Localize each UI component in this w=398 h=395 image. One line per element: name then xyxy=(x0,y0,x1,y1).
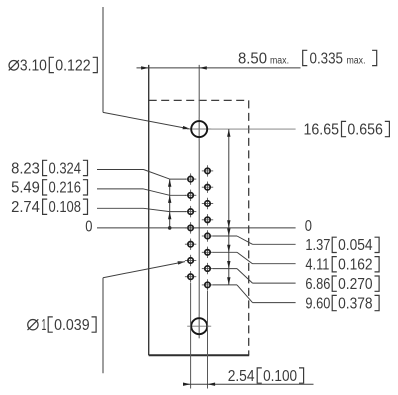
svg-text:1: 1 xyxy=(42,317,47,334)
centerline through holes xyxy=(198,65,200,338)
leader for 1.37 xyxy=(213,235,237,237)
svg-text:3.10: 3.10 xyxy=(20,57,47,74)
svg-text:1.37: 1.37 xyxy=(305,237,330,254)
pin P4 xyxy=(202,214,213,225)
dimension D3 2.54 line xyxy=(183,383,314,385)
dimension chain left vertical xyxy=(169,179,171,228)
svg-text:0: 0 xyxy=(305,218,312,235)
svg-text:6.86: 6.86 xyxy=(305,276,330,293)
dimension D1 8.50 line xyxy=(137,67,301,69)
dimension chain right arrow 9.60 xyxy=(227,277,230,285)
dimension D3 right arrow xyxy=(208,383,216,386)
dimension chain left arrow 2.74 xyxy=(168,212,171,220)
svg-text:5.49: 5.49 xyxy=(11,180,40,197)
pin P5 xyxy=(202,230,213,241)
pin P12 xyxy=(185,222,196,233)
svg-text:2.74: 2.74 xyxy=(11,199,40,216)
svg-text:max.: max. xyxy=(347,55,366,66)
svg-text:8.23: 8.23 xyxy=(11,160,40,177)
dimension chain right arrow 1.37 xyxy=(227,228,230,236)
mounting hole H2 xyxy=(187,314,211,338)
svg-text:16.65: 16.65 xyxy=(304,121,340,138)
dimension chain left arrow 8.23 xyxy=(168,179,171,187)
svg-text:0.054: 0.054 xyxy=(338,237,373,254)
dimension D3 left arrow xyxy=(183,383,191,386)
mounting hole H1 xyxy=(187,117,211,141)
svg-text:0.378: 0.378 xyxy=(338,295,373,312)
leader for 8.23 xyxy=(97,169,144,171)
pin P2 xyxy=(202,182,213,193)
mounting hole H1 reference line xyxy=(187,128,296,130)
pin diameter leader vertical xyxy=(102,278,104,374)
dimension chain right arrow 6.86 xyxy=(227,261,230,269)
svg-text:0.216: 0.216 xyxy=(49,180,82,197)
svg-text:2.54: 2.54 xyxy=(228,368,255,385)
leader for 2.74 xyxy=(97,207,144,209)
svg-text:0.270: 0.270 xyxy=(338,276,373,293)
pin diameter leader diagonal xyxy=(103,262,185,278)
svg-text:0.335: 0.335 xyxy=(310,50,344,67)
pin P7 xyxy=(202,263,213,274)
mounting hole H1 leader diagonal xyxy=(103,112,190,129)
svg-text:8.50: 8.50 xyxy=(238,50,267,67)
extension line left column xyxy=(190,283,192,389)
svg-text:0: 0 xyxy=(85,219,92,236)
dimension D1 right arrow xyxy=(199,66,207,69)
pin P15 xyxy=(185,271,196,282)
leader for 6.86 xyxy=(213,268,237,270)
dimension D2 up arrow xyxy=(227,129,230,137)
mounting hole H1 leader arrow xyxy=(183,126,191,129)
leader for 4.11 xyxy=(213,251,237,253)
part outline left edge / extension line xyxy=(148,65,150,355)
svg-text:0.108: 0.108 xyxy=(49,199,82,216)
pin P13 xyxy=(185,239,196,250)
label diameter 3.10 xyxy=(9,60,19,70)
svg-text:0.122: 0.122 xyxy=(55,57,91,74)
dimension D1 left arrow xyxy=(141,66,149,69)
leader for 0 row (zero reference line) xyxy=(97,227,296,229)
svg-text:0.162: 0.162 xyxy=(338,257,373,274)
mounting hole H1 leader vertical xyxy=(102,7,104,112)
dimension D2 16.65 vertical line xyxy=(228,129,230,285)
svg-text:4.11: 4.11 xyxy=(305,257,329,274)
svg-text:0.324: 0.324 xyxy=(49,160,82,177)
pin P8 xyxy=(202,279,213,290)
pin P9 xyxy=(185,173,196,184)
pin P6 xyxy=(202,247,213,258)
extension line right column xyxy=(207,291,209,389)
pin P1 xyxy=(202,165,213,176)
leader for 9.60 xyxy=(213,284,237,286)
pin P11 xyxy=(185,206,196,217)
svg-text:9.60: 9.60 xyxy=(305,295,330,312)
dimension chain left origin dot xyxy=(168,226,172,230)
dimension chain left arrow 5.49 xyxy=(168,195,171,203)
label diameter 1 xyxy=(28,319,39,330)
pin diameter leader arrow xyxy=(178,261,186,264)
svg-text:0.100: 0.100 xyxy=(263,368,297,385)
svg-text:0.656: 0.656 xyxy=(347,121,383,138)
pin P3 xyxy=(202,198,213,209)
dimension D2 down arrow at 0 xyxy=(227,220,230,228)
dimension chain right arrow 4.11 xyxy=(227,245,230,253)
pin P10 xyxy=(185,190,196,201)
pin P14 xyxy=(185,255,196,266)
svg-text:max.: max. xyxy=(270,55,289,66)
leader for 5.49 xyxy=(97,188,144,190)
part outline top and right edges (dashed) xyxy=(149,100,249,355)
part outline bottom edge xyxy=(149,354,250,356)
svg-text:0.039: 0.039 xyxy=(54,317,90,334)
